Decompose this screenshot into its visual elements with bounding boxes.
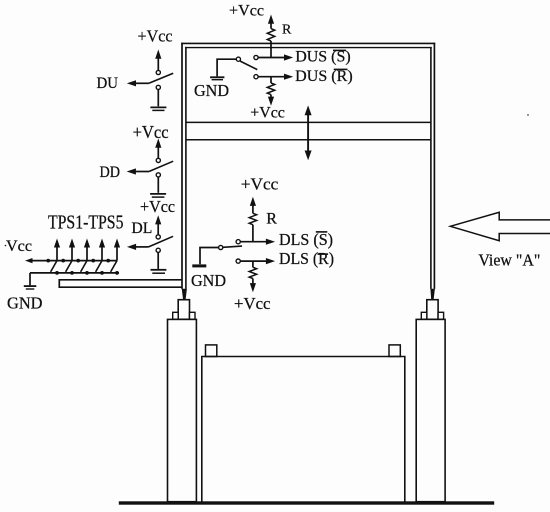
svg-text:TPS1-TPS5: TPS1-TPS5	[48, 212, 124, 234]
switch DL : bottom contact	[156, 248, 160, 252]
DLS blade	[223, 246, 242, 247]
DUS blade	[240, 61, 257, 70]
shelf platform	[59, 280, 182, 287]
View A outline arrow	[450, 212, 550, 240]
frame right inner vertical	[430, 47, 432, 289]
switch DU : blade	[149, 73, 173, 83]
base line	[119, 501, 494, 504]
svg-text:Vcc: Vcc	[6, 238, 32, 255]
lower ground rail	[30, 272, 119, 274]
TPS switch blade 5	[111, 261, 117, 272]
svg-text:DUS (S): DUS (S)	[295, 49, 351, 66]
DUS upper contact	[254, 55, 258, 59]
svg-text:DLS (S): DLS (S)	[279, 230, 333, 249]
DUS R pulldown resistor	[267, 77, 274, 106]
svg-text:+Vcc: +Vcc	[234, 294, 271, 313]
svg-text:+Vcc: +Vcc	[138, 26, 173, 45]
TPS output arrow 1	[54, 239, 60, 261]
left collar right ear	[190, 312, 196, 319]
svg-text:DLS (R): DLS (R)	[279, 249, 334, 268]
load box right tab	[389, 345, 400, 357]
switch DD : bottom contact	[156, 173, 160, 177]
DLS pivot contact	[219, 245, 223, 249]
DUS pole wire	[217, 59, 236, 76]
left piston	[178, 300, 189, 320]
svg-text:View "A": View "A"	[478, 251, 540, 270]
overline of R in DLS (R)	[318, 253, 329, 255]
crossbar upper line	[186, 121, 431, 123]
wire resistor to DLS S line	[252, 225, 254, 242]
DLS lower contact	[236, 259, 240, 263]
DLS S output line arrow	[240, 239, 275, 245]
load box left tab	[206, 345, 217, 357]
right collar left ear	[421, 312, 427, 319]
load box	[202, 357, 405, 503]
DUS lower contact	[254, 75, 258, 79]
left rod taper tip	[182, 289, 187, 300]
switch DD : blade	[149, 161, 173, 171]
left collar left ear	[173, 312, 179, 319]
DUS pivot contact	[236, 57, 240, 61]
svg-text:R: R	[282, 22, 292, 37]
TPS output arrow 2	[69, 239, 75, 261]
frame left outer vertical	[181, 43, 183, 289]
resistor R (DUS pull-up)	[267, 29, 274, 41]
svg-text:+Vcc: +Vcc	[241, 175, 279, 194]
svg-text:R: R	[266, 211, 277, 228]
right post	[416, 319, 445, 501]
switch DD : top contact	[156, 158, 160, 162]
switch DU : Vcc wire up arrow	[155, 50, 161, 71]
TPS switch blade 4	[96, 261, 102, 272]
switch DL : ground wire	[157, 252, 159, 269]
right rod taper tip	[430, 289, 435, 300]
switch DL : ground	[151, 270, 167, 273]
DLS R pulldown resistor	[249, 261, 256, 292]
speck dot	[5, 245, 7, 247]
DUS pull-up wire up arrow	[268, 15, 274, 29]
switch DL : output wire left arrow	[127, 244, 149, 250]
TPS output arrow 5	[114, 239, 120, 261]
left post	[168, 319, 197, 501]
DLS pole ground	[192, 264, 206, 267]
right piston	[427, 300, 438, 320]
switch DU : ground wire	[157, 90, 159, 107]
frame inner top rail	[185, 47, 432, 49]
DUS S output line arrow	[258, 54, 293, 60]
switch DU : ground	[150, 107, 166, 110]
switch DL : Vcc wire up arrow	[155, 215, 161, 235]
overline of R in DUS (R)	[334, 69, 348, 71]
svg-text:DD: DD	[100, 164, 121, 181]
TPS switch blade 2	[66, 261, 72, 272]
lower rail junction dots	[55, 271, 119, 275]
DLS upper contact	[236, 240, 240, 244]
switch DD : output wire left arrow	[127, 168, 149, 174]
door motion double arrow	[305, 105, 312, 160]
svg-text:DL: DL	[131, 220, 152, 237]
TPS switch blade 3	[81, 261, 87, 272]
Vcc rail left arrow	[25, 258, 117, 263]
TPS ground	[24, 286, 37, 289]
switch DD : Vcc wire up arrow	[155, 139, 161, 159]
svg-text:DU: DU	[97, 75, 119, 92]
switch DD : ground wire	[157, 177, 159, 193]
crossbar lower line	[186, 139, 431, 141]
switch DD : ground	[150, 194, 166, 197]
upper rail junction dots	[46, 259, 110, 263]
DLS pull-up wire up arrow	[250, 197, 256, 214]
switch DU : top contact	[156, 70, 160, 74]
wire resistor to DUS S line	[270, 41, 272, 58]
frame left inner vertical	[185, 47, 187, 289]
svg-text:DUS (R): DUS (R)	[295, 68, 353, 85]
overline of S in DLS (S)	[316, 231, 328, 233]
svg-text:GND: GND	[7, 293, 43, 312]
svg-text:+Vcc: +Vcc	[140, 197, 175, 216]
svg-text:+Vcc: +Vcc	[133, 122, 169, 142]
svg-text:GND: GND	[191, 271, 226, 290]
DUS pole ground	[210, 77, 224, 79]
TPS output arrow 3	[84, 239, 90, 261]
switch DU : bottom contact	[156, 85, 160, 89]
frame right outer vertical	[433, 43, 435, 289]
svg-text:GND: GND	[194, 81, 229, 100]
resistor R (DLS pull-up)	[249, 213, 256, 224]
frame outer top rail	[181, 42, 435, 44]
DLS pole wire	[200, 248, 219, 265]
switch DL : blade	[149, 236, 174, 247]
svg-text:+Vcc: +Vcc	[229, 2, 264, 19]
DLS R output line arrow	[240, 258, 275, 264]
speck dot right	[527, 114, 529, 116]
TPS switch blade 1	[51, 261, 57, 272]
switch DU : output wire left arrow	[127, 80, 149, 86]
right collar right ear	[438, 312, 444, 319]
ground rail elbow wire	[29, 273, 31, 286]
switch DL : top contact	[156, 235, 160, 239]
DUS R output line arrow	[258, 74, 293, 80]
TPS output arrow 4	[99, 239, 105, 261]
overline of S in DUS (S)	[333, 50, 346, 52]
svg-text:+Vcc: +Vcc	[250, 104, 284, 121]
